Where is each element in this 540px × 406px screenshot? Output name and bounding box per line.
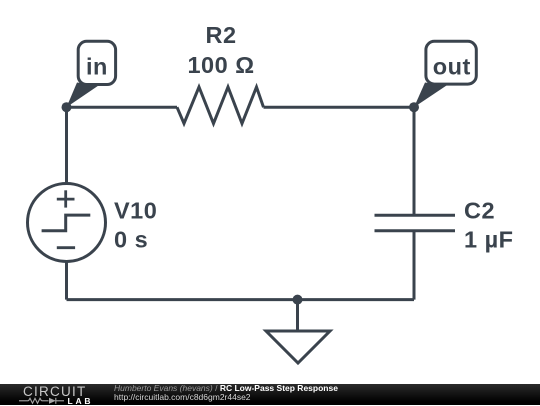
svg-text:out: out xyxy=(433,54,471,80)
wire: out node down to capacitor top plate xyxy=(413,107,416,215)
resistor R2 xyxy=(177,87,264,124)
wire: V10 bottom to bottom rail xyxy=(65,262,68,300)
V10 minus sign xyxy=(57,246,75,249)
CircuitLab logo schematic squiggle (wire, resistor, diode) xyxy=(19,397,65,405)
capacitor C2 top plate xyxy=(375,214,456,217)
node out callout box xyxy=(426,41,476,84)
wire: resistor right lead to out node xyxy=(264,106,415,109)
ground symbol xyxy=(266,331,330,363)
wire: capacitor bottom plate to bottom rail xyxy=(413,231,416,300)
CircuitLab logo wordmark CIRCUIT xyxy=(23,384,87,399)
svg-text:V10: V10 xyxy=(114,198,157,224)
wire: in node down to V10 top xyxy=(65,107,68,184)
node in callout tail xyxy=(67,83,99,108)
voltage source V10 circle xyxy=(28,184,106,262)
svg-text:0 s: 0 s xyxy=(114,227,148,253)
node out callout tail xyxy=(414,83,447,108)
svg-text:100 Ω: 100 Ω xyxy=(187,52,254,78)
wire: bottom rail xyxy=(67,298,415,301)
svg-text:in: in xyxy=(86,54,108,80)
footer url line xyxy=(114,392,251,402)
node in callout box xyxy=(78,41,115,84)
wire: in node to resistor left lead xyxy=(67,106,178,109)
svg-text:R2: R2 xyxy=(205,22,236,48)
V10 plus sign xyxy=(57,190,75,207)
wire: ground stub xyxy=(296,300,299,331)
V10 step waveform symbol xyxy=(42,215,91,231)
footer attribution line xyxy=(114,384,338,394)
node in junction dot xyxy=(62,102,72,112)
svg-text:1 µF: 1 µF xyxy=(464,227,514,253)
capacitor C2 bottom plate xyxy=(375,229,456,232)
node out junction dot xyxy=(409,102,419,112)
ground junction dot xyxy=(293,295,303,305)
CircuitLab logo wordmark LAB xyxy=(68,396,94,406)
svg-text:C2: C2 xyxy=(464,198,495,224)
